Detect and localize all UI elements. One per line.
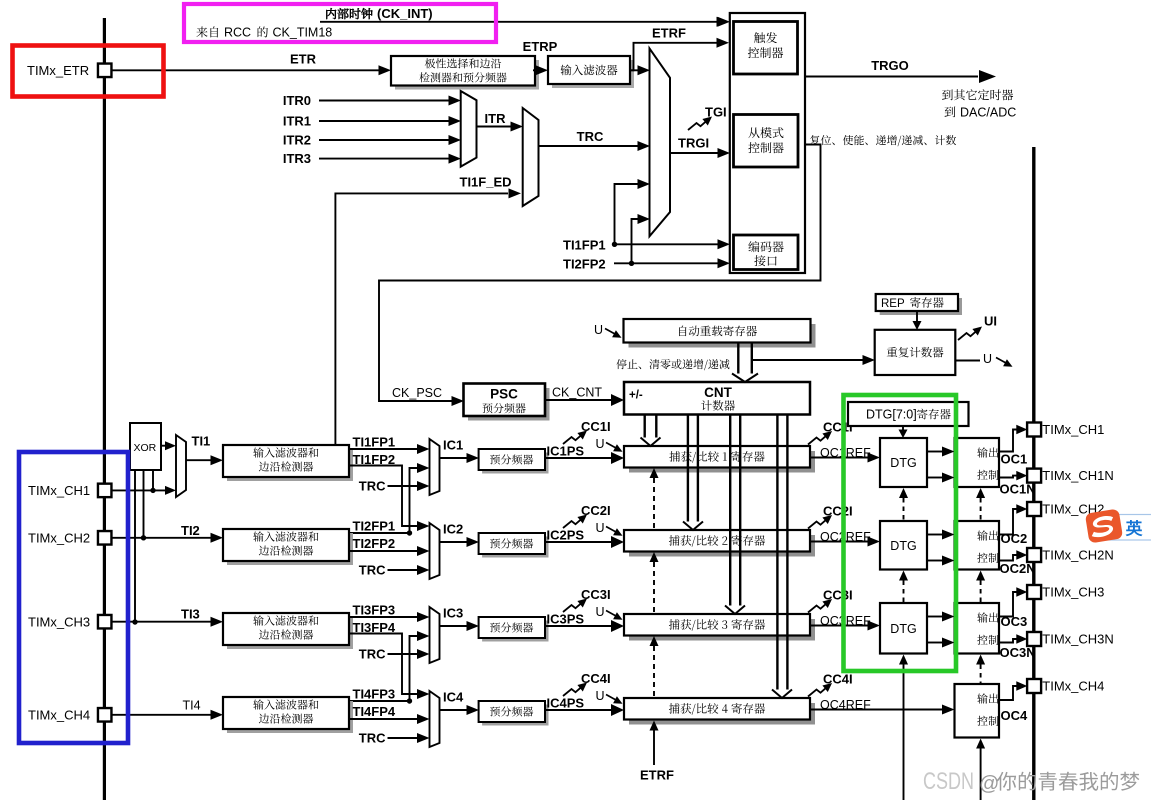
wire dashed into DTG1 bottom [899, 488, 908, 498]
block slave mode controller 从模式控制器 [734, 115, 799, 168]
svg-text:ETRF: ETRF [652, 26, 686, 41]
pin TIMx_CH2 input [98, 531, 112, 545]
svg-text:TRC: TRC [359, 647, 386, 662]
block XOR [130, 423, 161, 470]
wire OC1REF to DTG1 [810, 457, 869, 459]
svg-text:OC4: OC4 [1001, 708, 1029, 723]
svg-text:OC1: OC1 [1001, 452, 1028, 467]
wire TI2FP2 into mux IC2 [349, 550, 418, 552]
pin TIMx_CH1 output [1027, 423, 1041, 437]
wire DTG2 to output control (OC2) [927, 534, 943, 536]
wire CNT to capture 4 (rail) [777, 415, 787, 690]
svg-text:CK_PSC: CK_PSC [392, 386, 442, 400]
svg-text:TI2FP2: TI2FP2 [563, 257, 606, 272]
svg-text:CC2I: CC2I [823, 504, 853, 519]
label CC4I event flag right [808, 686, 829, 697]
svg-text:CC2I: CC2I [581, 503, 611, 518]
wire OC1N to pin [999, 476, 1017, 478]
wire DTG3 to output control (OC3N) [927, 642, 943, 644]
wire dashed into capture 1 bottom [650, 468, 659, 478]
block dead-time generator DTG2 [880, 521, 927, 570]
svg-text:TIMx_CH4: TIMx_CH4 [28, 708, 90, 723]
wire TRGO output [805, 76, 978, 78]
wire slave controller to CK_PSC [379, 145, 821, 402]
svg-text:TIMx_CH1N: TIMx_CH1N [1042, 468, 1114, 483]
wire TI1F_ED [335, 193, 508, 445]
wire TI1FP2 down to mux IC2 [349, 466, 418, 527]
svg-text:TIMx_CH1: TIMx_CH1 [1042, 422, 1104, 437]
svg-text:TI4: TI4 [183, 699, 201, 713]
wire OC3N to pin [999, 639, 1017, 643]
wire IC1 to prescaler [440, 457, 468, 459]
block counter CNT 计数器 [624, 382, 810, 415]
svg-text:TRC: TRC [359, 563, 386, 578]
svg-text:CC3I: CC3I [581, 587, 611, 602]
annotation blue box around TIMx_CHx inputs [19, 452, 128, 743]
wire IC4 to prescaler [440, 709, 468, 711]
svg-text:CK_CNT: CK_CNT [552, 386, 602, 400]
label CC1I event flag right [808, 434, 829, 445]
svg-text:TIMx_CH3: TIMx_CH3 [28, 615, 90, 630]
wire REP to repetition counter [916, 311, 918, 322]
annotation green box around DTG blocks [844, 395, 957, 671]
wire TI3 [112, 621, 212, 623]
mux IC3 select [430, 607, 440, 663]
svg-text:TIMx_CH2N: TIMx_CH2N [1042, 548, 1114, 563]
svg-text:ITR: ITR [485, 111, 507, 126]
svg-text:DTG: DTG [890, 539, 916, 553]
svg-text:ETRP: ETRP [523, 39, 558, 54]
svg-text:TI3FP3: TI3FP3 [353, 603, 396, 618]
wire into DTG3 bottom from below [899, 655, 908, 665]
pin TIMx_CH3 output [1027, 585, 1041, 599]
svg-text:CSDN: CSDN [923, 768, 974, 795]
svg-text:OC3N: OC3N [1000, 645, 1036, 660]
block controller outline [730, 13, 805, 273]
block input filter & edge detector 4 输入滤波器和边沿检测器 [227, 701, 353, 733]
block capture/compare register 2 捕获/比较 2 寄存器 [629, 535, 815, 557]
wire OC2REF to DTG2 [810, 541, 869, 543]
svg-text:TIMx_CH3: TIMx_CH3 [1042, 585, 1104, 600]
svg-text:OC2: OC2 [1001, 531, 1028, 546]
wire DTG2 to output control (OC2N) [927, 560, 943, 562]
block output control 4 输出控制 [955, 684, 1000, 738]
block input prescaler 4 预分频器 [482, 705, 548, 726]
wire left input bus (TIMx pins rail) [103, 18, 106, 800]
wire DTG register to DTG1 [902, 426, 904, 431]
svg-text:(CK_INT): (CK_INT) [377, 6, 433, 21]
wire IC1PS to capture register [545, 457, 612, 459]
mux IC1 select [430, 439, 440, 495]
wire auto-reload to CNT (double rail) [738, 343, 752, 375]
pin TIMx_ETR [98, 64, 112, 78]
wire OC3REF to DTG3 [810, 625, 869, 627]
svg-text:U: U [596, 689, 605, 703]
wire ITR to TRC mux [477, 126, 512, 128]
svg-text:TIMx_CH2: TIMx_CH2 [28, 531, 90, 546]
mux TI1 select [176, 435, 186, 497]
wire TI1 from pin [112, 489, 167, 491]
wire TI1FP1 to encoder/mux [616, 243, 719, 245]
pin TIMx_CH2 output [1027, 502, 1041, 516]
svg-text:CC3I: CC3I [823, 588, 853, 603]
block input filter & edge detector 3 输入滤波器和边沿检测器 [227, 617, 353, 649]
wire IC2PS to capture register [545, 541, 612, 543]
wire CNT to capture 2 (rail) [688, 415, 698, 522]
svg-text:TI2: TI2 [181, 523, 200, 538]
svg-text:REP: REP [881, 298, 905, 310]
mux IC2 select [430, 523, 440, 579]
svg-text:IC4: IC4 [443, 690, 464, 705]
pin TIMx_CH4 output [1027, 679, 1041, 693]
pin TIMx_CH2N output [1027, 548, 1041, 562]
wire ETRP [533, 69, 537, 71]
svg-text:TI1F_ED: TI1F_ED [460, 174, 512, 189]
label CC1I event flag left [563, 433, 584, 444]
mux TRC select [523, 108, 539, 206]
wire auto-reload to repetition counter [752, 359, 864, 361]
wire IC2 to prescaler [440, 541, 468, 543]
wire IC3PS to capture register [545, 625, 612, 627]
label 停止、清零或递增/递减 [616, 359, 729, 370]
wire ITR3 [319, 158, 450, 160]
svg-text:TI3: TI3 [181, 607, 200, 622]
svg-text:OC2N: OC2N [1000, 561, 1036, 576]
svg-text:U: U [594, 323, 603, 337]
wire ETRF to trigger controller [630, 43, 717, 71]
block output control 1 输出控制 [955, 438, 1000, 487]
block capture/compare register 3 捕获/比较 3 寄存器 [629, 619, 815, 641]
svg-text:U: U [596, 521, 605, 535]
wire OC4 to pin [999, 686, 1017, 700]
label UI event flag [958, 329, 979, 340]
pin TIMx_CH3 input [98, 615, 112, 629]
svg-text:CK_TIM18: CK_TIM18 [273, 26, 333, 40]
wire dashed into capture 2 bottom [650, 552, 659, 562]
svg-text:RCC: RCC [224, 26, 251, 40]
wire into output control 4 bottom from below [976, 739, 985, 749]
wire TI4FP4 into mux IC4 [349, 718, 418, 720]
mux trigger select (TRGI) [650, 48, 671, 236]
svg-text:PSC: PSC [490, 387, 518, 402]
svg-text:U: U [596, 605, 605, 619]
label 到其它定时器 to other timers [942, 89, 1013, 100]
svg-text:DTG: DTG [890, 456, 916, 470]
pin TIMx_CH3N output [1027, 632, 1041, 646]
svg-text:CNT: CNT [704, 385, 732, 400]
svg-text:IC1: IC1 [443, 438, 463, 453]
label 内部时钟 (CK_INT) internal clock [326, 8, 372, 19]
block prescaler PSC 预分频器 [468, 388, 550, 421]
wire ETR to polarity block [112, 69, 380, 71]
svg-text:DTG[7:0]: DTG[7:0] [866, 408, 917, 422]
wire DTG3 to output control (OC3) [927, 616, 943, 618]
wire CK_INT to trigger controller [320, 21, 718, 23]
label CC3I event flag left [563, 601, 584, 612]
svg-text:TI4FP4: TI4FP4 [353, 704, 396, 719]
arrow CK_INT into trigger controller [718, 17, 731, 27]
svg-text:ETR: ETR [290, 52, 317, 67]
wire right output bus (TIMx_CHx pins rail) [1032, 147, 1035, 800]
svg-text:+/-: +/- [629, 390, 643, 402]
wire CNT to capture 3 (rail) [730, 415, 740, 606]
svg-text:ETRF: ETRF [640, 768, 674, 783]
wire TRC row 2 [388, 569, 419, 571]
wire OC2N to pin [999, 555, 1017, 561]
wire TI1 mux to filter [186, 459, 212, 461]
wire dashed into capture 3 bottom [650, 636, 659, 646]
svg-text:IC3PS: IC3PS [547, 612, 585, 627]
svg-text:U: U [983, 352, 992, 366]
svg-text:IC3: IC3 [443, 606, 463, 621]
wire TRC row 4 [388, 737, 419, 739]
svg-text:U: U [596, 437, 605, 451]
wire TRC row 3 [388, 653, 419, 655]
label U update after repetition counter [955, 360, 980, 362]
wire TI1FP1 into mux IC1 [349, 448, 418, 450]
wire TRC to trigger mux [539, 145, 639, 147]
pin TIMx_CH1 input [98, 484, 112, 498]
svg-text:TRC: TRC [577, 129, 604, 144]
svg-text:CC4I: CC4I [823, 672, 853, 687]
svg-text:IC4PS: IC4PS [547, 696, 585, 711]
block input prescaler 2 预分频器 [482, 537, 548, 558]
wire TI2FP2 to encoder/mux [614, 262, 719, 264]
svg-text:ITR2: ITR2 [283, 133, 311, 148]
wire TRC row 1 [388, 485, 419, 487]
svg-text:CC1I: CC1I [581, 419, 611, 434]
mux IC4 select [430, 691, 440, 747]
wire TI3FP3 into mux IC3 [349, 616, 418, 618]
label 复位、使能、递增/递减、计数 [810, 135, 956, 146]
svg-text:IC2: IC2 [443, 522, 463, 537]
svg-text:TIMx_CH1: TIMx_CH1 [28, 483, 90, 498]
svg-text:@: @ [979, 773, 999, 795]
wire ITR1 [319, 120, 450, 122]
block trigger controller 触发控制器 [734, 22, 798, 75]
label CC4I event flag left [563, 685, 584, 696]
wire DTG1 to output control (OC1N) [927, 477, 943, 479]
block dead-time generator DTG1 [880, 438, 927, 487]
svg-text:IC2PS: IC2PS [547, 528, 585, 543]
svg-text:XOR: XOR [134, 442, 157, 454]
svg-text:TIMx_CH3N: TIMx_CH3N [1042, 632, 1114, 647]
wire dashed into output control 3 bottom [976, 655, 985, 665]
svg-text:TI2FP1: TI2FP1 [353, 519, 396, 534]
block encoder interface 编码器接口 [734, 235, 799, 270]
wire ITR0 [319, 100, 450, 102]
wire IC4PS to capture register [545, 709, 612, 711]
icon CSDN logo [1085, 509, 1123, 544]
wire OC2 to pin [999, 509, 1017, 535]
block input filter & edge detector 1 输入滤波器和边沿检测器 [227, 449, 353, 481]
svg-text:OC1N: OC1N [1000, 482, 1036, 497]
block input prescaler 1 预分频器 [482, 453, 548, 474]
label 到 DAC/ADC [945, 106, 956, 117]
annotation translate popup [1101, 515, 1151, 541]
block polarity selection & edge detector & prescaler 极性选择和边沿检测器和预分频器 [395, 60, 539, 90]
block dead-time generator DTG3 [880, 603, 927, 654]
svg-text:TI1FP1: TI1FP1 [353, 435, 396, 450]
svg-text:CC4I: CC4I [581, 671, 611, 686]
wire ITR2 [319, 139, 450, 141]
wire IC3 to prescaler [440, 625, 468, 627]
wire XOR to TI1 mux [161, 445, 166, 447]
svg-text:TI2FP2: TI2FP2 [353, 536, 396, 551]
block input prescaler 3 预分频器 [482, 621, 548, 642]
wire FP up from row 2 into mux IC1 [349, 468, 418, 533]
svg-text:TI1FP1: TI1FP1 [563, 238, 606, 253]
pin TIMx_CH4 input [98, 708, 112, 722]
svg-text:IC1PS: IC1PS [547, 444, 585, 459]
svg-text:ITR0: ITR0 [283, 93, 311, 108]
wire DTG1 to output control (OC1) [927, 451, 943, 453]
label CC2I event flag left [563, 517, 584, 528]
label CC3I event flag right [808, 602, 829, 613]
svg-text:TIMx_CH4: TIMx_CH4 [1042, 679, 1104, 694]
block capture/compare register 1 捕获/比较 1 寄存器 [629, 451, 815, 473]
svg-text:DTG: DTG [890, 622, 916, 636]
block REP register REP 寄存器 [880, 298, 962, 315]
svg-text:TRGO: TRGO [871, 58, 909, 73]
annotation red box around TIMx_ETR [13, 46, 164, 97]
label 英 translate button [1126, 520, 1142, 536]
wire CK_CNT [545, 399, 612, 401]
wire OC3 to pin [999, 592, 1017, 617]
annotation magenta box around internal clock [184, 4, 496, 42]
svg-text:OC3: OC3 [1001, 614, 1028, 629]
wire TI4 [112, 714, 212, 716]
wire CNT to capture 1 (rail) [645, 415, 657, 438]
block DTG[7:0] register DTG[7:0] 寄存器 [848, 402, 969, 426]
svg-text:TGI: TGI [705, 105, 727, 120]
svg-text:TIMx_ETR: TIMx_ETR [27, 63, 89, 78]
wire dashed into output control 1 bottom [976, 488, 985, 498]
block output control 2 输出控制 [955, 521, 1000, 570]
svg-text:UI: UI [984, 314, 997, 329]
pin TIMx_CH1N output [1027, 469, 1041, 483]
label CC2I event flag right [808, 518, 829, 529]
block auto-reload register 自动重载寄存器 [629, 324, 816, 348]
svg-text:TI4FP3: TI4FP3 [353, 687, 396, 702]
block output control 3 输出控制 [955, 603, 1000, 654]
wire OC4REF to output control 4 [810, 709, 943, 711]
wire TRGI to slave mode controller [670, 152, 719, 154]
svg-text:TRC: TRC [359, 479, 386, 494]
wire ETRF into capture 4 bottom [650, 721, 659, 731]
label 来自 RCC 的 CK_TIM18 [196, 26, 218, 37]
wire dashed into DTG2 bottom [899, 571, 908, 581]
wire FP up from row 4 into mux IC3 [349, 636, 418, 701]
svg-text:ITR1: ITR1 [283, 114, 311, 129]
wire XOR input taps [135, 470, 153, 622]
svg-text:ITR3: ITR3 [283, 151, 311, 166]
block repetition counter 重复计数器 [875, 330, 956, 375]
block input filter 输入滤波器 [552, 60, 634, 88]
wire TI3FP4 down to mux IC4 [349, 634, 418, 695]
block capture/compare register 4 捕获/比较 4 寄存器 [629, 703, 815, 725]
svg-text:TI1: TI1 [192, 434, 211, 449]
block input filter & edge detector 2 输入滤波器和边沿检测器 [227, 533, 353, 565]
label TGI event flag [688, 119, 709, 130]
wire OC1 to pin [999, 430, 1017, 452]
mux ITR select [461, 91, 477, 167]
wire TI2 [112, 537, 212, 539]
wire ETRF to trigger mux [630, 69, 639, 71]
svg-text:DAC/ADC: DAC/ADC [960, 105, 1016, 119]
wire dashed into output control 2 bottom [976, 571, 985, 581]
svg-text:TRGI: TRGI [678, 136, 709, 151]
svg-text:TRC: TRC [359, 731, 386, 746]
